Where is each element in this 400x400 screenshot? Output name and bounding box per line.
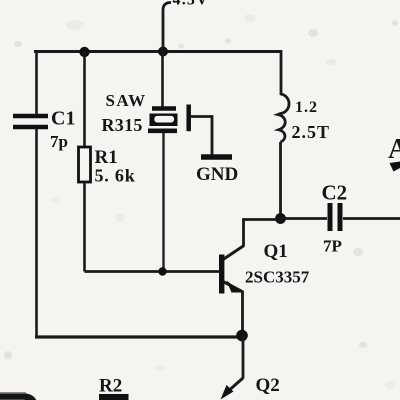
- wire: SAW bottom lead down to base line: [162, 133, 164, 271]
- node: junction dot SAW/base line: [158, 267, 166, 275]
- svg-text:R2: R2: [99, 376, 122, 397]
- transistor Q2 emitter diagonal with arrow (cut off at bottom): [221, 378, 244, 400]
- wire: right vertical from rail down to coil: [280, 50, 283, 95]
- inductor L1 coil 2.5T: [278, 94, 289, 142]
- wire: C2 right plate to right edge: [343, 217, 400, 220]
- output arrow below A: [390, 162, 400, 172]
- wire: electrode to ground drop: [190, 117, 212, 157]
- wire: bottom rail y=337: [35, 335, 243, 338]
- resistor R2 body (cut off at bottom edge): [99, 394, 129, 400]
- svg-text:A: A: [388, 134, 400, 165]
- wire: coil bottom down to C2 node: [279, 142, 282, 219]
- ground bar: [201, 154, 232, 160]
- SAW resonator top plate: [152, 106, 176, 111]
- svg-text:C2: C2: [322, 181, 348, 205]
- svg-text:2SC3357: 2SC3357: [245, 268, 310, 287]
- transistor Q1 base bar: [219, 255, 224, 294]
- svg-text:R315: R315: [102, 115, 143, 135]
- node: junction dot rail/R1: [79, 47, 89, 57]
- node: junction dot collector/C2: [275, 213, 286, 224]
- wire: collector drop from node: [244, 220, 281, 247]
- capacitor C1 plates: [13, 116, 48, 127]
- SAW resonator body: [150, 114, 178, 127]
- transistor Q1 emitter diagonal with arrow: [223, 281, 243, 293]
- wire: base line y=271 to Q1 base: [85, 270, 221, 273]
- wire: R1 top lead: [83, 52, 86, 147]
- svg-text:1.2: 1.2: [295, 99, 318, 116]
- wire: below C1 down left side: [35, 129, 38, 339]
- svg-text:4.3V: 4.3V: [173, 0, 209, 9]
- svg-text:5. 6k: 5. 6k: [95, 166, 136, 186]
- wire: top supply rail y=51 from x=34 to x=281: [34, 50, 282, 53]
- svg-text:7p: 7p: [50, 132, 68, 151]
- capacitor C2 plates: [330, 203, 340, 231]
- wire: 4.3V supply lead with top hook: [163, 3, 171, 52]
- svg-text:Q1: Q1: [264, 241, 288, 262]
- node: junction dot rail/supply at x=163: [158, 47, 168, 57]
- wire: down toward Q2: [242, 336, 245, 379]
- svg-text:SAW: SAW: [106, 91, 147, 110]
- node: junction dot emitter/bottom rail: [236, 330, 248, 342]
- transistor Q1 collector diagonal: [223, 246, 244, 260]
- wire: Q1 emitter down to bottom node: [241, 291, 244, 336]
- svg-text:7P: 7P: [323, 237, 342, 256]
- svg-text:2.5T: 2.5T: [292, 122, 331, 142]
- wire: node to C2 left plate: [281, 217, 328, 220]
- svg-text:C1: C1: [51, 108, 75, 130]
- wire: SAW top lead: [161, 51, 164, 107]
- svg-text:GND: GND: [196, 164, 238, 185]
- SAW resonator bottom plate: [148, 129, 177, 134]
- wire: left vertical from rail down to C1: [35, 50, 38, 114]
- wire: R1 bottom lead down to base line: [83, 182, 86, 272]
- svg-text:Q2: Q2: [256, 375, 280, 396]
- resistor R1 body: [79, 147, 91, 182]
- SAW third electrode bar: [186, 105, 191, 132]
- connector outline bottom-left (cut off): [0, 393, 35, 400]
